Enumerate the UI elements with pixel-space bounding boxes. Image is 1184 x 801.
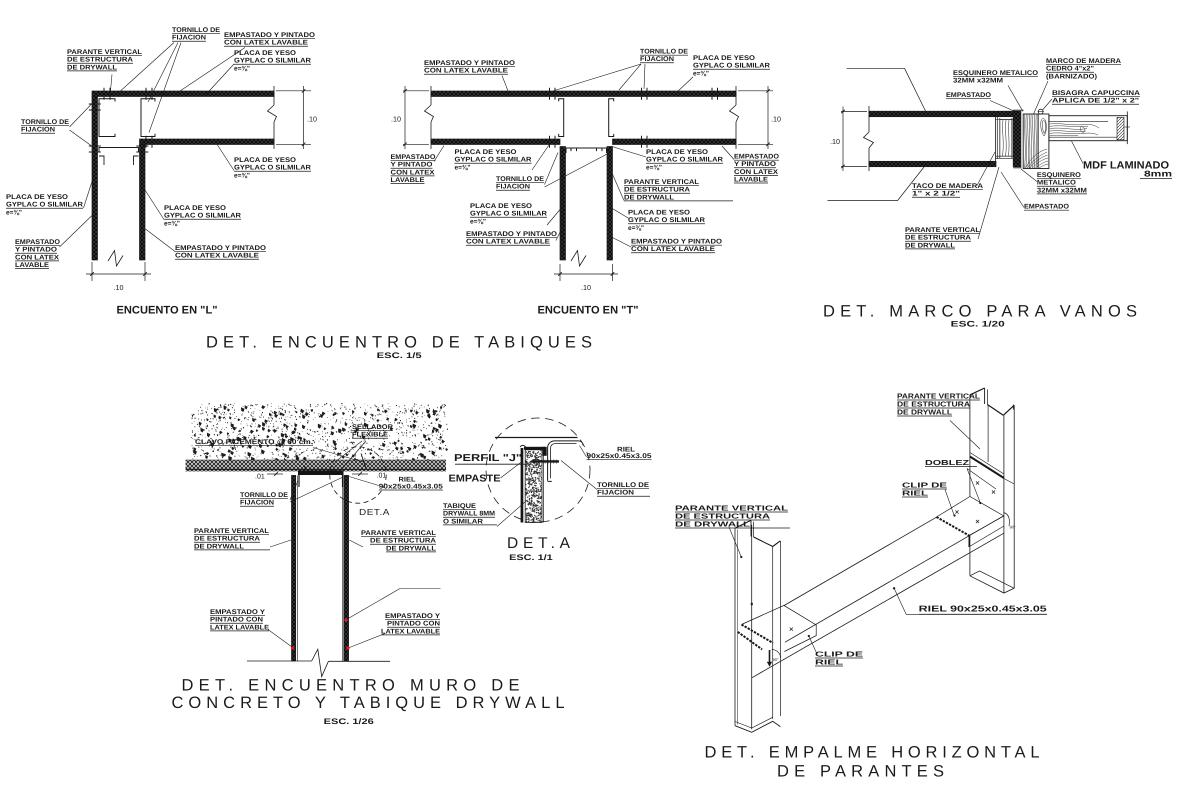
svg-text:90x25x0.45x3.05: 90x25x0.45x3.05 <box>379 483 443 490</box>
svg-text:.10: .10 <box>114 283 124 292</box>
stud right of T junction <box>609 99 614 137</box>
MDF laminado panel <box>1049 116 1127 141</box>
dashed DET.A circle <box>330 447 386 503</box>
svg-text:DOBLEZ: DOBLEZ <box>925 458 970 467</box>
svg-text:e=⅜": e=⅜" <box>234 65 250 72</box>
svg-text:1" x 2 1/2": 1" x 2 1/2" <box>912 191 960 198</box>
black block right of plate top <box>543 447 547 456</box>
svg-text:PLACA DE YESO: PLACA DE YESO <box>455 149 517 156</box>
svg-text:ESQUINERO METALICO: ESQUINERO METALICO <box>953 70 1038 77</box>
svg-text:EMPASTADO Y PINTADO: EMPASTADO Y PINTADO <box>424 60 515 67</box>
wall end edge + break (left) <box>430 86 432 105</box>
stud at start of horizontal wall <box>141 99 155 137</box>
left stud top cap (open channel) <box>735 520 751 528</box>
dimension .10 bottom <box>559 264 561 281</box>
svg-text:DET. ENCUENTRO DE TABIQUES: DET. ENCUENTRO DE TABIQUES <box>206 333 592 351</box>
svg-text:DET. ENCUENTRO MURO DE: DET. ENCUENTRO MURO DE <box>182 677 520 695</box>
right stud top cap (open channel) <box>970 388 985 395</box>
right stud doblez fold <box>970 453 1004 475</box>
svg-text:EMPASTADO Y PINTADO: EMPASTADO Y PINTADO <box>224 32 315 39</box>
svg-text:EMPASTADO Y PINTADO: EMPASTADO Y PINTADO <box>175 245 266 252</box>
wall break (bottom of vertical wall) <box>108 251 123 267</box>
perfil J heavy vertical bar (empaste) <box>521 448 524 523</box>
svg-text:PLACA DE YESO: PLACA DE YESO <box>470 203 532 210</box>
svg-text:CEDRO 4"x2": CEDRO 4"x2" <box>1046 66 1094 73</box>
left stud verticals <box>734 528 736 726</box>
svg-text:DE ESTRUCTURA: DE ESTRUCTURA <box>624 187 690 194</box>
left bend arrow <box>769 650 771 663</box>
ground line with break <box>247 660 312 662</box>
svg-text:LATEX LAVABLE: LATEX LAVABLE <box>381 628 441 635</box>
top plate <box>869 111 1013 117</box>
svg-text:GYPLAC O SILMILAR: GYPLAC O SILMILAR <box>164 213 241 220</box>
svg-text:.01: .01 <box>255 474 265 481</box>
svg-text:GYPLAC O SILMILAR: GYPLAC O SILMILAR <box>455 157 532 164</box>
screws <box>549 88 551 91</box>
svg-text:PARANTE VERTICAL: PARANTE VERTICAL <box>194 528 269 535</box>
concrete speckle field <box>191 403 448 463</box>
svg-text:TORNILLO DE: TORNILLO DE <box>597 482 650 489</box>
left wall plate <box>292 475 296 661</box>
left 90 arc fillet <box>772 649 781 657</box>
svg-text:ESC. 1/1: ESC. 1/1 <box>509 553 553 562</box>
svg-text:e=⅜": e=⅜" <box>646 164 662 171</box>
riel track with rounded corner <box>548 441 579 481</box>
svg-text:CLAVO P/CEMENTO @ 60 cm.: CLAVO P/CEMENTO @ 60 cm. <box>195 439 313 446</box>
svg-text:RIEL: RIEL <box>815 657 844 666</box>
svg-text:EMPASTADO: EMPASTADO <box>15 239 60 246</box>
svg-text:FLEXIBLE: FLEXIBLE <box>352 432 389 439</box>
wall break (bottom) <box>571 251 586 267</box>
svg-text:EMPASTADO: EMPASTADO <box>946 92 991 99</box>
right stud bottom cap <box>970 576 1014 593</box>
svg-text:PERFIL "J": PERFIL "J" <box>454 453 522 464</box>
svg-text:DE DRYWALL: DE DRYWALL <box>194 543 244 550</box>
right clip plate <box>937 497 1004 518</box>
svg-text:PLACA DE YESO: PLACA DE YESO <box>234 157 296 164</box>
stud assembly lines at wall end <box>995 114 997 161</box>
svg-text:.10: .10 <box>391 115 401 124</box>
svg-text:FIJACION: FIJACION <box>640 56 674 63</box>
svg-text:BISAGRA CAPUCCINA: BISAGRA CAPUCCINA <box>1052 90 1140 97</box>
MDF end bracket <box>1126 111 1128 144</box>
svg-text:SELLADOR: SELLADOR <box>352 424 393 431</box>
dimension .10 left <box>841 111 867 113</box>
tornillo screw (threaded band) <box>526 460 560 462</box>
taco de madera (wood blocking) with grain <box>1000 120 1012 157</box>
svg-text:e=⅜": e=⅜" <box>693 70 709 77</box>
svg-text:EMPASTADO Y: EMPASTADO Y <box>385 613 441 620</box>
leader lines <box>116 43 174 96</box>
wall end edge + break (right) <box>273 86 275 105</box>
esquinero metalico angles <box>1013 109 1023 111</box>
MDF end hatch block <box>1117 117 1124 139</box>
svg-text:CON LATEX: CON LATEX <box>391 169 436 176</box>
svg-text:EMPASTADO: EMPASTADO <box>391 154 436 161</box>
svg-text:CON LATEX LAVABLE: CON LATEX LAVABLE <box>175 253 260 260</box>
svg-text:DE DRYWALL: DE DRYWALL <box>67 64 117 71</box>
screws on plates <box>103 88 105 91</box>
svg-text:90x25x0.45x3.05: 90x25x0.45x3.05 <box>587 453 652 460</box>
svg-text:DE ESTRUCTURA: DE ESTRUCTURA <box>905 235 971 242</box>
marco de madera (wood frame) with grain <box>1023 114 1049 169</box>
svg-text:FIJACION: FIJACION <box>172 35 206 42</box>
placa de yeso - top horizontal plate <box>92 91 274 97</box>
svg-text:DE DRYWALL: DE DRYWALL <box>897 407 953 416</box>
svg-text:GYPLAC O SILMILAR: GYPLAC O SILMILAR <box>693 63 770 70</box>
svg-text:ESC. 1/20: ESC. 1/20 <box>951 320 1006 329</box>
svg-text:e=⅜": e=⅜" <box>455 164 471 171</box>
right 90 arc fillet <box>1004 513 1010 527</box>
svg-text:PINTADO CON: PINTADO CON <box>210 617 263 624</box>
svg-text:DE DRYWALL: DE DRYWALL <box>905 242 955 249</box>
svg-text:LAVABLE: LAVABLE <box>734 176 769 183</box>
svg-text:PLACA DE YESO: PLACA DE YESO <box>164 205 226 212</box>
bottom left plate <box>431 139 560 145</box>
left clip plate <box>742 605 817 651</box>
svg-text:TORNILLO DE: TORNILLO DE <box>21 119 69 126</box>
svg-text:32MM x32MM: 32MM x32MM <box>1037 187 1087 194</box>
stud left of T junction <box>559 99 564 137</box>
placa de yeso - inner vertical plate <box>140 145 146 261</box>
svg-text:CON LATEX LAVABLE: CON LATEX LAVABLE <box>224 40 309 47</box>
perfil J curl at plate top <box>520 445 526 449</box>
red dot markers <box>291 646 294 649</box>
svg-text:APLICA DE 1/2" x 2": APLICA DE 1/2" x 2" <box>1052 98 1139 105</box>
svg-text:DE ESTRUCTURA: DE ESTRUCTURA <box>67 57 133 64</box>
svg-text:LAVABLE: LAVABLE <box>391 177 426 184</box>
cut leader bottom-left (no text) <box>828 200 898 202</box>
svg-text:CON LATEX: CON LATEX <box>734 169 779 176</box>
svg-text:EMPASTADO: EMPASTADO <box>1024 204 1069 211</box>
svg-text:FIJACION: FIJACION <box>597 490 634 497</box>
top plate <box>431 91 736 97</box>
rail lines <box>784 517 937 605</box>
wall end edge + break (left) <box>868 106 870 132</box>
dimension .10 right <box>276 90 311 92</box>
svg-text:TORNILLO DE: TORNILLO DE <box>172 27 220 34</box>
svg-text:ESC. 1/26: ESC. 1/26 <box>324 717 375 726</box>
placa de yeso - inner horizontal plate <box>140 139 275 145</box>
svg-text:RIEL 90x25x0.45x3.05: RIEL 90x25x0.45x3.05 <box>919 604 1047 614</box>
svg-text:CON LATEX LAVABLE: CON LATEX LAVABLE <box>631 246 716 253</box>
left stud bottom cap <box>735 721 780 732</box>
cut leader top-left (no text) <box>847 67 905 69</box>
vertical wall left plate <box>560 147 566 261</box>
svg-text:EMPASTE: EMPASTE <box>449 474 501 485</box>
svg-text:EMPASTADO Y PINTADO: EMPASTADO Y PINTADO <box>466 231 557 238</box>
bottom right plate <box>613 139 737 145</box>
svg-text:GYPLAC O SILMILAR: GYPLAC O SILMILAR <box>470 211 547 218</box>
svg-text:ESQUINERO: ESQUINERO <box>1037 172 1081 179</box>
corner stud track (C channel) <box>99 99 115 137</box>
svg-text:DET. MARCO PARA VANOS: DET. MARCO PARA VANOS <box>823 303 1137 321</box>
svg-text:ENCUENTO EN "L": ENCUENTO EN "L" <box>117 305 218 317</box>
dense hatch band under concrete <box>186 460 446 472</box>
right junction marks <box>955 510 958 513</box>
svg-text:DE ESTRUCTURA: DE ESTRUCTURA <box>370 538 436 545</box>
T wall top track <box>566 148 607 153</box>
left clip serrated bend edges <box>742 625 774 644</box>
svg-text:FIJACION: FIJACION <box>240 500 274 507</box>
right stud verticals <box>969 395 971 497</box>
svg-text:90°: 90° <box>1010 525 1016 530</box>
svg-text:.10: .10 <box>581 283 591 292</box>
svg-text:TORNILLO DE: TORNILLO DE <box>496 176 544 183</box>
dimension .10 bottom <box>91 262 93 281</box>
svg-text:GYPLAC O SILMILAR: GYPLAC O SILMILAR <box>234 58 311 65</box>
leader to upper red dot <box>347 589 401 620</box>
svg-text:DE DRYWALL: DE DRYWALL <box>675 519 751 528</box>
left junction marks <box>790 628 793 631</box>
svg-text:CON LATEX: CON LATEX <box>15 254 60 261</box>
svg-text:e=⅜": e=⅜" <box>6 209 22 216</box>
svg-text:Y PINTADO: Y PINTADO <box>734 161 776 168</box>
tabique drywall plate (stippled) <box>525 450 542 523</box>
svg-text:METALICO: METALICO <box>1037 180 1076 187</box>
svg-text:32MM x32MM: 32MM x32MM <box>953 78 1003 85</box>
svg-text:TACO DE MADERA: TACO DE MADERA <box>912 183 983 190</box>
svg-text:TABIQUE: TABIQUE <box>443 503 476 510</box>
right wall plate <box>344 475 349 661</box>
svg-text:EMPASTADO Y PINTADO: EMPASTADO Y PINTADO <box>631 239 722 246</box>
svg-text:PLACA DE YESO: PLACA DE YESO <box>646 149 708 156</box>
svg-text:.01: .01 <box>377 473 387 480</box>
svg-text:90°: 90° <box>773 657 779 662</box>
svg-text:DET.A: DET.A <box>507 535 571 552</box>
svg-text:PINTADO CON: PINTADO CON <box>387 621 440 628</box>
svg-text:LATEX LAVABLE: LATEX LAVABLE <box>210 624 270 631</box>
svg-text:GYPLAC O SILMILAR: GYPLAC O SILMILAR <box>628 217 705 224</box>
svg-text:PLACA DE YESO: PLACA DE YESO <box>693 55 755 62</box>
bisagra capuccina (hinge) <box>1038 109 1043 114</box>
clavo / anchor marks <box>304 467 306 473</box>
svg-text:PLACA DE YESO: PLACA DE YESO <box>6 194 68 201</box>
svg-text:PARANTE VERTICAL: PARANTE VERTICAL <box>361 530 436 537</box>
svg-text:DE DRYWALL: DE DRYWALL <box>386 545 436 552</box>
svg-text:EMPASTADO Y: EMPASTADO Y <box>210 609 266 616</box>
wall end edge + break (right) <box>735 86 737 105</box>
svg-text:MARCO DE MADERA: MARCO DE MADERA <box>1046 58 1121 65</box>
dimension .10 left <box>403 90 429 92</box>
svg-text:DE PARANTES: DE PARANTES <box>777 763 944 781</box>
svg-text:GYPLAC O SILMILAR: GYPLAC O SILMILAR <box>6 202 83 209</box>
slab bottom line <box>186 468 446 470</box>
svg-text:FIJACION: FIJACION <box>21 127 55 134</box>
svg-text:PLACA DE YESO: PLACA DE YESO <box>234 50 296 57</box>
svg-text:.10: .10 <box>771 115 781 124</box>
svg-text:GYPLAC O SILMILAR: GYPLAC O SILMILAR <box>646 157 723 164</box>
svg-text:8mm: 8mm <box>1144 169 1173 179</box>
plate right edge line <box>543 450 545 523</box>
svg-text:Y PINTADO: Y PINTADO <box>391 162 433 169</box>
svg-text:PLACA DE YESO: PLACA DE YESO <box>628 210 690 217</box>
svg-text:EMPASTADO: EMPASTADO <box>734 154 779 161</box>
svg-text:DE DRYWALL: DE DRYWALL <box>624 194 674 201</box>
svg-text:e=⅜": e=⅜" <box>234 172 250 179</box>
flap edges <box>1004 479 1014 485</box>
svg-text:ESC. 1/5: ESC. 1/5 <box>377 351 423 360</box>
bottom plate <box>869 161 996 166</box>
svg-text:e=⅜": e=⅜" <box>164 220 180 227</box>
svg-text:PARANTE VERTICAL: PARANTE VERTICAL <box>905 227 980 234</box>
svg-text:PARANTE VERTICAL: PARANTE VERTICAL <box>67 49 142 56</box>
dimension .10 right <box>738 90 773 92</box>
svg-text:DE ESTRUCTURA: DE ESTRUCTURA <box>194 536 260 543</box>
svg-text:e=⅜": e=⅜" <box>628 225 644 232</box>
svg-text:CON LATEX LAVABLE: CON LATEX LAVABLE <box>424 68 509 75</box>
svg-text:DET.A: DET.A <box>359 507 390 517</box>
placa de yeso - left vertical plate <box>92 97 98 261</box>
parante end block (dark) <box>1013 111 1021 167</box>
svg-text:.10: .10 <box>307 115 317 124</box>
vertical wall stud clips <box>99 156 104 165</box>
svg-text:CON LATEX LAVABLE: CON LATEX LAVABLE <box>466 239 551 246</box>
svg-text:PARANTE VERTICAL: PARANTE VERTICAL <box>624 179 699 186</box>
svg-text:RIEL: RIEL <box>902 488 929 497</box>
vertical wall right plate <box>607 147 613 261</box>
svg-text:DRYWALL 8MM: DRYWALL 8MM <box>443 511 495 518</box>
ceiling line above detail <box>495 437 578 439</box>
svg-text:LAVABLE: LAVABLE <box>15 262 50 269</box>
svg-text:GYPLAC O SILMILAR: GYPLAC O SILMILAR <box>234 165 311 172</box>
plate top black cap <box>524 447 545 450</box>
svg-text:e=⅜": e=⅜" <box>470 218 486 225</box>
svg-text:FIJACION: FIJACION <box>496 184 530 191</box>
dashed circle <box>486 418 590 522</box>
svg-text:ENCUENTO EN "T": ENCUENTO EN "T" <box>538 305 639 317</box>
svg-text:TORNILLO DE: TORNILLO DE <box>640 49 688 56</box>
vertical wall top track <box>99 148 139 153</box>
svg-text:.10: .10 <box>830 137 840 146</box>
svg-text:Y PINTADO: Y PINTADO <box>15 247 57 254</box>
svg-text:TORNILLO DE: TORNILLO DE <box>240 492 288 499</box>
svg-text:O SIMILAR: O SIMILAR <box>443 518 483 525</box>
svg-text:(BARNIZADO): (BARNIZADO) <box>1046 73 1097 80</box>
wall top track (riel) - solid bar with legs <box>298 470 344 475</box>
